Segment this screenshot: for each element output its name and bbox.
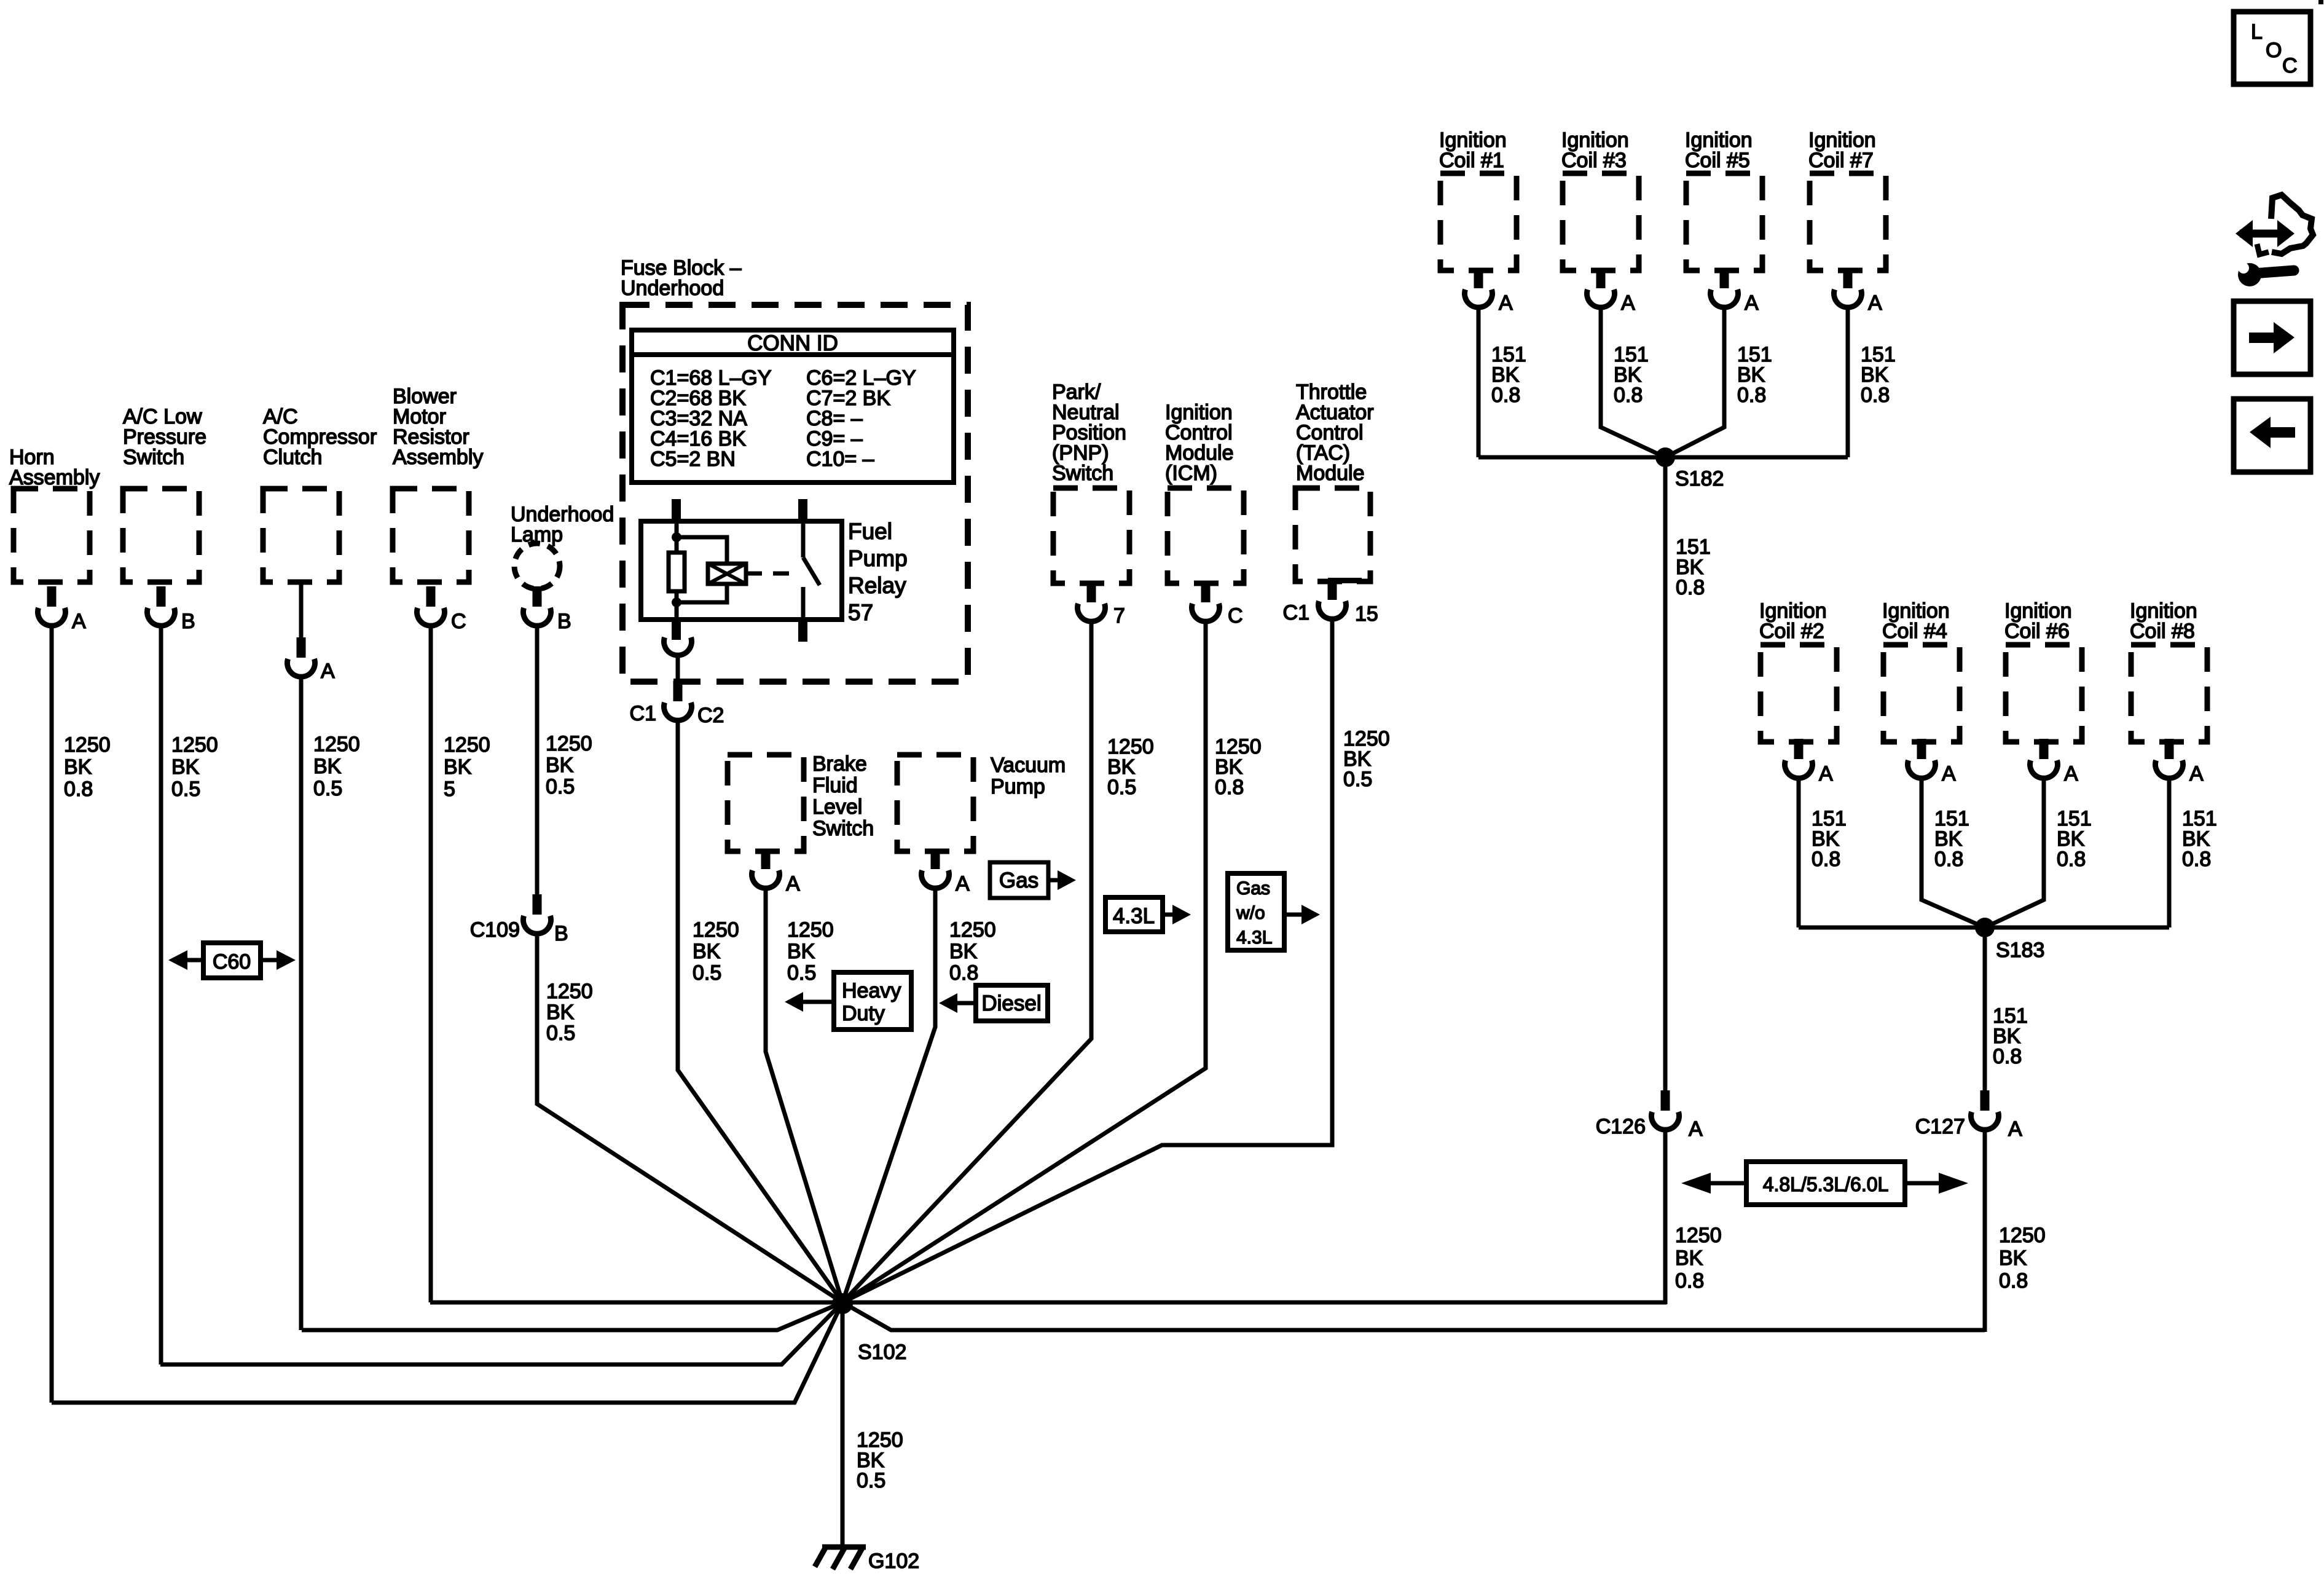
svg-text:0.8: 0.8 [1737, 384, 1766, 407]
relay pin (bottom right) [798, 620, 807, 642]
LOC legend box [2234, 12, 2310, 84]
relay coil branch (lower) [677, 584, 727, 602]
relay switch contact [803, 521, 820, 620]
svg-text:0.8: 0.8 [1676, 576, 1705, 599]
svg-text:Pump: Pump [848, 546, 908, 571]
svg-text:Coil #1: Coil #1 [1439, 149, 1504, 172]
svg-text:4.8L/5.3L/6.0L: 4.8L/5.3L/6.0L [1763, 1173, 1889, 1195]
svg-text:A: A [1499, 291, 1513, 315]
svg-text:Coil #3: Coil #3 [1561, 149, 1627, 172]
svg-text:Coil #7: Coil #7 [1808, 149, 1874, 172]
svg-text:C1: C1 [1283, 601, 1309, 624]
relay coil branch (upper) [677, 537, 727, 564]
svg-text:0.8: 0.8 [1491, 384, 1520, 407]
wire 151 BK 0.8 from S183 to C127 [1985, 927, 2028, 1095]
svg-text:0.5: 0.5 [546, 775, 575, 798]
connector C60 tag [168, 943, 296, 978]
wire 1250 BK 0.8 from C126 to S102 [1665, 1130, 1722, 1304]
connector pin A of coil #4 [1908, 739, 1957, 786]
connector C126 pin A [1596, 1090, 1703, 1141]
wire S102 bus line 4 (horn) [52, 1302, 842, 1403]
ignition coil #3 (component box) [1561, 128, 1639, 270]
svg-text:Diesel: Diesel [981, 991, 1041, 1015]
wire 1250 BK 0.5 S102 to G102 [842, 1302, 903, 1546]
connector pin A of A/C compressor clutch [287, 637, 335, 683]
svg-text:Gas: Gas [999, 868, 1038, 892]
wire from A/C compressor clutch to pin [299, 582, 304, 642]
connector pin 7 of PNP switch [1078, 582, 1125, 628]
svg-text:0.8: 0.8 [64, 778, 93, 801]
wire 151 BK 0.8 from coil #5 to S182 [1665, 307, 1772, 457]
connector C1/C2 [630, 681, 724, 727]
svg-text:1250: 1250 [693, 918, 739, 942]
wire 151 BK 0.8 from coil #4 to S183 [1922, 778, 1985, 927]
wire S183 bus [1799, 926, 2169, 930]
relay resistor lower wire [675, 591, 679, 620]
svg-text:B: B [554, 922, 568, 945]
svg-text:BK: BK [546, 754, 574, 777]
svg-text:0.5: 0.5 [546, 1022, 575, 1045]
svg-text:0.8: 0.8 [2057, 848, 2086, 871]
svg-text:BK: BK [693, 940, 721, 963]
relay node (upper) [672, 532, 681, 542]
service/wrench icon [2236, 195, 2313, 286]
wire 1250 BK 0.5 brake switch to S102 [766, 888, 842, 1302]
ignition coil #5 (component box) [1685, 128, 1762, 270]
connector pin A of coil #6 [2030, 739, 2078, 786]
svg-text:Clutch: Clutch [263, 446, 322, 469]
connector pin A of coil #7 [1834, 268, 1883, 315]
connector C127 pin A [1915, 1090, 2022, 1141]
wire 1250 BK 0.5 A/C compressor to S102 (vertical) [301, 676, 360, 1330]
svg-text:(ICM): (ICM) [1165, 462, 1217, 485]
relay pin (top left) [672, 499, 681, 521]
connector pin A of coil #5 [1711, 268, 1759, 315]
next-page arrow box [2234, 301, 2310, 374]
svg-text:0.5: 0.5 [857, 1469, 885, 1492]
svg-text:Switch: Switch [1052, 462, 1113, 485]
connector C109 pin B [470, 894, 568, 945]
svg-text:L: L [2251, 20, 2263, 44]
svg-text:A: A [956, 872, 970, 896]
svg-text:0.5: 0.5 [171, 778, 200, 801]
wire S102 bus line 2 left (A/C compressor) [302, 1302, 842, 1330]
ignition coil #1 (component box) [1439, 128, 1517, 270]
wire 1250 BK 0.8 horn to S102 (vertical) [52, 626, 111, 1403]
svg-text:Coil #5: Coil #5 [1685, 149, 1750, 172]
svg-text:Switch: Switch [812, 817, 874, 840]
wire S102 bus line 3 (A/C low pressure) [160, 1302, 842, 1364]
wire 1250 BK 0.5 fuse block to S102 [678, 720, 842, 1302]
relay resistor [669, 553, 685, 591]
throttle actuator control (TAC) module (component box) [1295, 380, 1374, 581]
connector pin A of vacuum pump [921, 849, 970, 896]
connector pin C of blower motor resistor [417, 586, 466, 633]
wire 151 BK 0.8 from coil #7 to S182 [1848, 307, 1896, 457]
svg-text:Duty: Duty [842, 1002, 885, 1025]
svg-text:A: A [786, 872, 800, 896]
svg-text:Level: Level [812, 795, 862, 819]
svg-text:C109: C109 [470, 918, 520, 942]
svg-text:w/o: w/o [1236, 903, 1265, 923]
wire 1250 BK 0.5 underhood lamp to C109 [537, 626, 592, 897]
wire 1250 BK 5 blower motor to S102 (vertical) [431, 626, 490, 1302]
prev-page arrow box [2234, 399, 2310, 472]
wire 1250 BK 0.5 TAC module to S102 [842, 619, 1390, 1302]
svg-text:1250: 1250 [546, 980, 593, 1003]
svg-text:C: C [1228, 604, 1243, 628]
connector pin B of A/C low pressure switch [147, 586, 195, 633]
svg-text:0.8: 0.8 [1812, 848, 1840, 871]
wire S102 bus line 1 (blower/C126) [430, 1301, 1666, 1305]
svg-text:Coil #8: Coil #8 [2130, 620, 2195, 643]
wire 151 BK 0.8 from coil #1 to S182 [1478, 307, 1526, 457]
relay pin (top right) [798, 499, 807, 521]
svg-text:C126: C126 [1596, 1115, 1646, 1138]
corner blower wire [430, 1302, 431, 1303]
fuse block - underhood (component box) [621, 256, 968, 682]
gas w/o 4.3L tag [1228, 873, 1320, 950]
gas tag [990, 862, 1076, 898]
svg-text:A: A [1745, 291, 1759, 315]
svg-text:0.8: 0.8 [1675, 1269, 1704, 1293]
svg-text:Module: Module [1296, 462, 1365, 485]
wire S182 bus [1478, 455, 1848, 460]
underhood lamp (component circle) [511, 503, 614, 589]
relay node (lower) [672, 597, 681, 607]
svg-text:Assembly: Assembly [9, 466, 100, 489]
svg-text:57: 57 [848, 600, 873, 625]
connector pin B of underhood lamp [524, 586, 571, 633]
svg-text:A: A [1819, 762, 1833, 786]
svg-text:0.8: 0.8 [1861, 384, 1890, 407]
A/C low pressure switch (component box) [123, 405, 206, 582]
vacuum pump (component box) [897, 754, 1066, 851]
engine variant tag 4.8L/5.3L/6.0L [1681, 1162, 1968, 1205]
svg-text:Pump: Pump [991, 775, 1045, 798]
wire 1250 BK 0.5 A/C low pressure to S102 (vertical) [161, 626, 218, 1364]
splice S183 [1975, 918, 2044, 962]
wire 151 BK 0.8 from coil #8 to S183 [2169, 778, 2217, 927]
svg-text:Gas: Gas [1236, 878, 1270, 899]
svg-text:Relay: Relay [848, 573, 906, 598]
diesel tag [939, 985, 1048, 1021]
svg-text:Underhood: Underhood [621, 277, 724, 300]
svg-text:BK: BK [444, 755, 472, 779]
blower motor resistor assembly (component box) [393, 385, 483, 582]
svg-text:A: A [72, 610, 86, 633]
svg-text:BK: BK [1999, 1246, 2027, 1270]
svg-text:0.8: 0.8 [1993, 1045, 2022, 1068]
svg-text:O: O [2266, 39, 2282, 62]
ignition coil #2 (component box) [1759, 599, 1837, 742]
ignition coil #4 (component box) [1882, 599, 1960, 742]
svg-text:7: 7 [1113, 604, 1125, 628]
svg-text:A: A [1868, 291, 1882, 315]
svg-text:A: A [1621, 291, 1635, 315]
svg-text:A: A [2064, 762, 2078, 786]
svg-text:A: A [1689, 1117, 1703, 1141]
horn assembly (component box) [9, 446, 100, 582]
svg-text:BK: BK [64, 755, 92, 779]
svg-text:15: 15 [1355, 602, 1378, 626]
connector pin A of coil #3 [1587, 268, 1636, 315]
connector pin A of horn [38, 586, 87, 633]
svg-text:Fluid: Fluid [812, 774, 858, 797]
wire 1250 BK 0.8 vacuum pump to S102 [842, 888, 996, 1302]
svg-text:Coil #2: Coil #2 [1759, 620, 1824, 643]
svg-text:A: A [2189, 762, 2204, 786]
svg-text:BK: BK [313, 755, 342, 778]
page corner mark [2318, 0, 2323, 4]
svg-text:0.5: 0.5 [693, 961, 721, 985]
relay coil feed wire [675, 521, 679, 553]
svg-text:1250: 1250 [171, 733, 218, 757]
svg-text:1250: 1250 [949, 918, 996, 942]
ignition coil #8 (component box) [2130, 599, 2207, 742]
svg-text:1250: 1250 [787, 918, 834, 942]
svg-text:0.5: 0.5 [313, 777, 342, 800]
ground G102 [815, 1546, 919, 1573]
svg-text:0.8: 0.8 [949, 961, 978, 985]
connector pin A of brake fluid level switch [752, 849, 800, 896]
svg-text:Vacuum: Vacuum [991, 754, 1066, 777]
CONN ID table [632, 330, 954, 482]
svg-text:0.5: 0.5 [1107, 776, 1136, 799]
fuel pump relay 57 (relay box) [641, 519, 908, 625]
svg-text:1250: 1250 [1999, 1224, 2046, 1247]
park/neutral position (PNP) switch (component box) [1052, 380, 1129, 583]
ignition coil #7 (component box) [1808, 128, 1886, 270]
connector pin 15 of TAC module (C1) [1283, 580, 1378, 626]
svg-text:0.8: 0.8 [2182, 848, 2211, 871]
svg-text:Coil #6: Coil #6 [2004, 620, 2070, 643]
svg-text:BK: BK [171, 755, 200, 779]
svg-text:A: A [321, 660, 335, 683]
heavy duty tag [785, 972, 911, 1030]
svg-text:5: 5 [444, 778, 455, 801]
svg-text:A: A [2008, 1117, 2022, 1141]
ignition control module ICM (component box) [1165, 401, 1244, 583]
svg-text:0.8: 0.8 [1215, 776, 1244, 799]
svg-text:Assembly: Assembly [393, 446, 483, 469]
wire relay to C1/C2 connector [676, 655, 680, 683]
svg-text:S102: S102 [858, 1341, 906, 1364]
svg-text:4.3L: 4.3L [1113, 904, 1155, 928]
svg-text:0.5: 0.5 [1343, 768, 1372, 791]
brake fluid level switch (component box) [728, 752, 874, 851]
svg-text:C2: C2 [697, 704, 724, 727]
wire 151 BK 0.8 from coil #6 to S183 [1985, 778, 2092, 927]
svg-text:0.8: 0.8 [1614, 384, 1643, 407]
svg-text:CONN ID: CONN ID [747, 331, 838, 355]
A/C compressor clutch (component box) [263, 405, 377, 582]
svg-text:C60: C60 [213, 950, 251, 974]
connector pin A of coil #8 [2156, 739, 2204, 786]
wire 151 BK 0.8 from coil #2 to S183 [1799, 778, 1847, 927]
splice S182 [1655, 447, 1724, 490]
svg-text:BK: BK [949, 940, 978, 963]
svg-text:B: B [181, 610, 195, 633]
svg-text:Coil #4: Coil #4 [1882, 620, 1947, 643]
svg-text:0.8: 0.8 [1934, 848, 1963, 871]
svg-text:C: C [2282, 54, 2298, 77]
svg-text:4.3L: 4.3L [1236, 927, 1272, 948]
svg-text:S183: S183 [1996, 939, 2044, 962]
wire 1250 BK 0.8 ICM to S102 [842, 621, 1262, 1302]
connector pin A of coil #1 [1465, 268, 1513, 315]
wire 1250 BK 0.5 C109 to S102 [537, 934, 842, 1302]
svg-text:C127: C127 [1915, 1115, 1965, 1138]
svg-text:1250: 1250 [1675, 1224, 1722, 1247]
svg-text:C5=2 BN: C5=2 BN [650, 447, 736, 471]
svg-text:C: C [451, 610, 466, 633]
connector pin A of coil #2 [1785, 739, 1833, 786]
TAC bottom pin segment [1328, 578, 1362, 583]
wire 151 BK 0.8 from coil #3 to S182 [1601, 307, 1665, 457]
svg-text:1250: 1250 [444, 733, 490, 757]
relay solenoid coil symbol [708, 564, 746, 584]
relay actuation dashed link [746, 572, 798, 576]
svg-text:B: B [557, 610, 571, 633]
ignition coil #6 (component box) [2004, 599, 2082, 742]
wire 151 BK 0.8 from S182 to C126 [1665, 457, 1711, 1095]
svg-text:G102: G102 [868, 1549, 919, 1573]
svg-text:Heavy: Heavy [842, 979, 901, 1002]
svg-text:1250: 1250 [313, 733, 360, 756]
wire 1250 BK 0.8 from C127 to S102 [1985, 1130, 2046, 1332]
svg-text:C10= –: C10= – [806, 447, 874, 471]
svg-text:BK: BK [787, 940, 815, 963]
svg-text:BK: BK [546, 1001, 575, 1024]
svg-text:BK: BK [1675, 1246, 1703, 1270]
svg-text:S182: S182 [1675, 467, 1724, 490]
svg-text:Brake: Brake [812, 752, 867, 776]
wire S102 bus line 2 right (C127) [842, 1302, 1985, 1330]
svg-text:0.8: 0.8 [1999, 1269, 2028, 1293]
wire 1250 BK 0.5 PNP switch to S102 [842, 621, 1154, 1302]
svg-text:1250: 1250 [546, 732, 592, 755]
svg-text:0.5: 0.5 [787, 961, 816, 985]
connector pin C of ICM [1192, 582, 1243, 628]
svg-text:A: A [1942, 762, 1956, 786]
svg-text:C1: C1 [630, 702, 656, 725]
svg-text:Switch: Switch [123, 446, 184, 469]
relay pin (bottom left) [664, 620, 692, 655]
svg-text:Fuel: Fuel [848, 519, 892, 544]
splice S102 [832, 1293, 906, 1364]
svg-text:1250: 1250 [64, 733, 111, 757]
4.3L tag [1105, 897, 1191, 932]
